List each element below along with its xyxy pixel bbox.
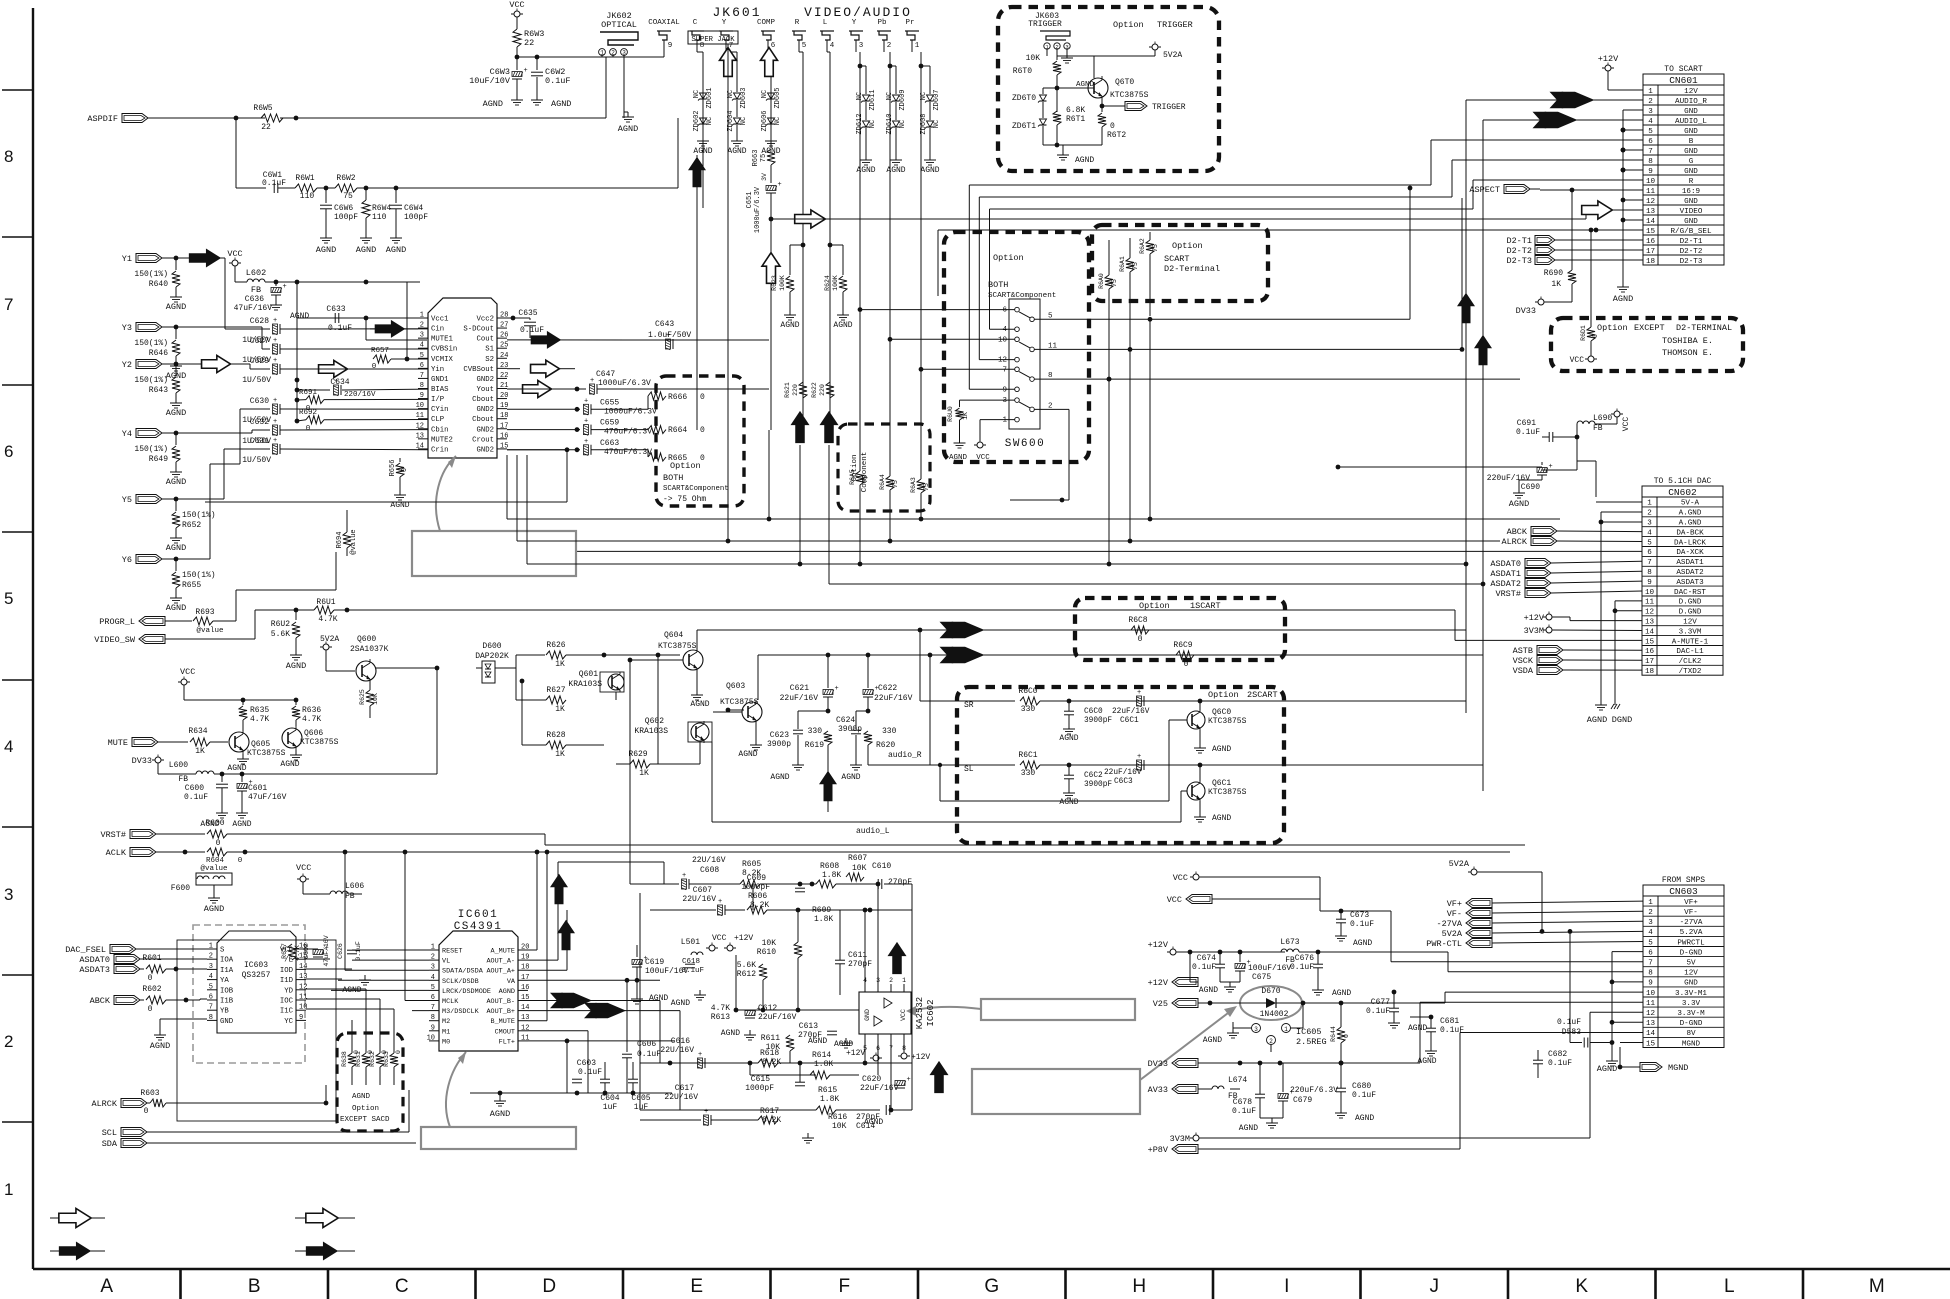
svg-text:12: 12 — [299, 983, 307, 991]
svg-text:C673: C673 — [1350, 911, 1369, 920]
svg-text:14: 14 — [416, 442, 424, 450]
IC602 top pin 3 — [877, 984, 879, 992]
svg-text:C603: C603 — [577, 1059, 596, 1068]
svg-text:K: K — [1575, 1276, 1588, 1297]
wire audio_R — [868, 764, 940, 766]
svg-text:GND: GND — [220, 1018, 234, 1026]
resistor R6W5 — [261, 114, 283, 122]
svg-text:1: 1 — [915, 42, 920, 50]
svg-text:1000uF/6.3V: 1000uF/6.3V — [604, 407, 657, 416]
svg-text:330: 330 — [882, 727, 897, 736]
svg-text:KTC3875S: KTC3875S — [658, 642, 697, 651]
svg-text:0: 0 — [1110, 122, 1115, 131]
resistor R629 1K — [630, 760, 650, 768]
svg-text:R619: R619 — [805, 741, 824, 750]
svg-text:1K: 1K — [195, 747, 205, 756]
svg-text:R627: R627 — [546, 686, 565, 695]
svg-text:/TXD2: /TXD2 — [1679, 668, 1702, 676]
svg-text:YB: YB — [220, 1008, 229, 1016]
svg-text:Y4: Y4 — [122, 429, 132, 439]
IC602 top pin 4 — [864, 984, 866, 992]
svg-text:DAC_FSEL: DAC_FSEL — [65, 945, 106, 955]
svg-text:10K: 10K — [1026, 54, 1041, 63]
svg-text:SDATA/DSDA: SDATA/DSDA — [442, 968, 484, 976]
capacitor C6W6 — [325, 188, 327, 203]
svg-text:KTC3875S: KTC3875S — [1110, 91, 1149, 100]
power VCC small — [979, 420, 981, 441]
transistor Q6T0 — [1088, 78, 1108, 98]
wire 16:9 — [1540, 189, 1643, 191]
svg-text:C626: C626 — [337, 943, 344, 959]
svg-text:4.7K: 4.7K — [294, 945, 301, 961]
svg-text:9: 9 — [299, 1014, 303, 1022]
svg-text:Q604: Q604 — [664, 631, 683, 640]
pin 21 Yout — [497, 387, 507, 389]
pin 10 I1C — [296, 1009, 306, 1011]
IC U601 video switch body — [428, 298, 497, 458]
svg-text:Option: Option — [352, 1105, 379, 1113]
capacitor C601 47uF/16V — [241, 774, 243, 782]
pin 19 GND2 — [497, 408, 507, 410]
svg-text:C611: C611 — [848, 951, 867, 960]
svg-text:+12V: +12V — [1148, 978, 1169, 988]
pin 3 MUTE1 — [418, 337, 428, 339]
wire SR/SL drops — [918, 628, 923, 633]
svg-text:0.1uF: 0.1uF — [355, 941, 362, 961]
capacitor C659 470uF/6.3V — [507, 429, 580, 431]
resistor R646 150(1%) — [175, 327, 177, 339]
svg-text:1K: 1K — [555, 705, 565, 714]
wire net C681 — [1410, 1016, 1431, 1018]
ground AGND — [1518, 488, 1520, 493]
svg-text:I: I — [1284, 1276, 1289, 1297]
resistor R6W3 — [513, 29, 521, 47]
svg-text:R624: R624 — [824, 275, 831, 291]
svg-text:0.1uF: 0.1uF — [1366, 1007, 1390, 1016]
svg-text:8: 8 — [4, 147, 13, 166]
svg-text:13: 13 — [299, 973, 307, 981]
resistor R6A1 75 — [1126, 258, 1134, 272]
svg-text:R6T1: R6T1 — [1066, 115, 1085, 124]
svg-text:VCC: VCC — [1622, 417, 1631, 432]
svg-text:YA: YA — [220, 977, 229, 985]
svg-text:D2-Terminal: D2-Terminal — [1164, 264, 1220, 274]
svg-text:+: + — [524, 67, 528, 75]
wire — [268, 408, 270, 410]
black arrow up on C line — [688, 157, 706, 188]
svg-text:4: 4 — [830, 42, 835, 50]
svg-text:0: 0 — [148, 974, 153, 983]
wire bus R to CN601 — [990, 208, 1474, 210]
svg-text:NC: NC — [693, 90, 701, 98]
svg-text:+: + — [1137, 689, 1141, 697]
wire loop under IC — [507, 449, 567, 451]
svg-text:R623: R623 — [771, 275, 778, 291]
svg-text:75: 75 — [862, 475, 869, 483]
wire D-GND row6 — [1612, 951, 1643, 953]
svg-text:Y5: Y5 — [122, 495, 132, 505]
svg-text:0: 0 — [1138, 635, 1143, 644]
svg-text:10: 10 — [416, 402, 424, 410]
ground AGND — [855, 760, 857, 765]
resistor R6C8 0 — [1131, 626, 1149, 634]
wire — [210, 741, 228, 743]
svg-text:R6A2: R6A2 — [1139, 238, 1146, 254]
svg-text:+: + — [283, 283, 287, 291]
svg-text:L: L — [823, 19, 828, 27]
svg-text:RESET: RESET — [442, 948, 462, 956]
svg-text:R6W4: R6W4 — [372, 204, 391, 213]
ground small — [1066, 53, 1068, 58]
resistor R664 0 — [648, 426, 666, 434]
svg-text:C623: C623 — [770, 731, 789, 740]
svg-text:Option: Option — [670, 461, 701, 471]
sheet border frame — [32, 8, 34, 1269]
svg-text:AGND: AGND — [727, 147, 746, 156]
svg-text:6: 6 — [876, 1045, 880, 1052]
svg-text:C632: C632 — [250, 418, 269, 427]
svg-text:L690: L690 — [1593, 414, 1612, 423]
pin 22 GND2 — [497, 377, 507, 379]
ground AGND — [175, 593, 177, 598]
svg-text:R6T2: R6T2 — [1107, 131, 1126, 140]
wire collector to D600 — [376, 667, 437, 669]
svg-text:D670: D670 — [1261, 987, 1280, 996]
svg-text:1: 1 — [431, 944, 435, 952]
svg-text:6: 6 — [420, 362, 424, 370]
svg-text:ZD602: ZD602 — [693, 110, 701, 131]
node — [520, 679, 525, 684]
svg-text:1.8K: 1.8K — [822, 871, 841, 880]
svg-text:AGND: AGND — [1239, 1124, 1258, 1133]
svg-text:ASDAT2: ASDAT2 — [1490, 579, 1521, 589]
svg-text:R640: R640 — [149, 280, 168, 289]
svg-text:0: 0 — [700, 426, 705, 435]
svg-text:DV33: DV33 — [1516, 306, 1536, 316]
svg-text:C6C3: C6C3 — [1114, 778, 1133, 786]
svg-text:Option: Option — [1113, 20, 1144, 30]
svg-text:VF+: VF+ — [1447, 899, 1462, 909]
svg-text:R626: R626 — [546, 641, 565, 650]
IC602 top pin 1 — [903, 984, 905, 992]
svg-text:R601: R601 — [142, 954, 161, 963]
svg-text:I/P: I/P — [431, 396, 444, 404]
svg-text:15: 15 — [500, 442, 508, 450]
svg-text:NC: NC — [774, 117, 782, 125]
svg-text:R663: R663 — [752, 150, 760, 167]
capacitor C680 0.1uF — [1336, 1087, 1346, 1089]
svg-text:CLP: CLP — [431, 416, 444, 424]
svg-text:R614: R614 — [812, 1051, 831, 1060]
svg-text:Cin: Cin — [431, 326, 444, 334]
svg-text:Y1: Y1 — [122, 254, 132, 264]
svg-text:0: 0 — [1592, 334, 1599, 338]
option box JK603 TRIGGER — [998, 7, 1219, 171]
svg-text:2: 2 — [889, 977, 893, 984]
wire VA — [528, 979, 660, 981]
svg-text:ZD606: ZD606 — [761, 110, 769, 131]
svg-text:0.1uF: 0.1uF — [262, 179, 286, 188]
IC602 bottom pin 7 — [890, 1034, 892, 1042]
opamp IC602 KA2532 body — [859, 992, 911, 1034]
resistor R6T1 6.8K — [1053, 111, 1061, 125]
svg-text:150(1%): 150(1%) — [134, 445, 168, 454]
wire — [516, 17, 518, 29]
svg-text:+: + — [584, 397, 588, 405]
svg-text:6.8K: 6.8K — [1066, 106, 1085, 115]
svg-text:C621: C621 — [790, 684, 809, 693]
pin 10 M0 — [429, 1040, 439, 1042]
wire filter verticals extra — [752, 884, 754, 910]
port tag MGND — [1618, 1065, 1623, 1070]
pin 15 /E — [296, 958, 306, 960]
power +12V — [1605, 65, 1611, 71]
ground AGND — [797, 760, 799, 765]
svg-text:R646: R646 — [149, 349, 168, 358]
inductor L600 FB — [196, 771, 214, 774]
ground AGND — [770, 125, 772, 136]
svg-text:GND2: GND2 — [476, 376, 494, 384]
svg-text:Pr: Pr — [905, 19, 914, 27]
svg-text:C: C — [693, 19, 698, 27]
zener ZD6T1 — [1040, 119, 1047, 125]
wire Cout to COMP column — [660, 339, 769, 341]
svg-text:100K: 100K — [779, 275, 786, 291]
svg-text:ZD612: ZD612 — [856, 113, 864, 134]
pin 1 S — [207, 948, 217, 950]
connector table CN601 TO SCART — [1643, 74, 1724, 265]
svg-text:1: 1 — [4, 1180, 13, 1199]
svg-text:YC: YC — [284, 1018, 293, 1026]
ground AGND — [399, 490, 401, 495]
svg-text:EXCEPT SACD: EXCEPT SACD — [340, 1116, 390, 1124]
svg-text:BIAS: BIAS — [431, 386, 449, 394]
svg-text:R604: R604 — [206, 857, 225, 865]
capacitor C675 100uF/16V — [1235, 964, 1245, 969]
svg-text:AOUT_A-: AOUT_A- — [486, 958, 515, 966]
wire left pins IC601 — [352, 949, 429, 951]
svg-text:Option: Option — [1208, 690, 1239, 700]
zener diode ZD608 — [929, 102, 931, 120]
svg-text:10uF/10V: 10uF/10V — [469, 76, 511, 86]
svg-text:Cbout: Cbout — [472, 416, 494, 424]
svg-text:C608: C608 — [700, 866, 719, 875]
svg-text:R618: R618 — [760, 1049, 779, 1058]
svg-text:0.1uF: 0.1uF — [1548, 1059, 1572, 1068]
svg-text:AGND: AGND — [1199, 986, 1218, 995]
wire 5V2A riser — [1569, 931, 1571, 1042]
svg-text:+12V: +12V — [1598, 54, 1619, 64]
svg-text:+P8V: +P8V — [1148, 1145, 1169, 1155]
connector table CN603 FROM SMPS — [1643, 885, 1724, 1048]
resistor R663 on COMP line — [770, 92, 772, 148]
svg-text:@value: @value — [196, 627, 223, 635]
wire 5V2A — [1057, 55, 1155, 57]
wire 3.3V row11 — [1419, 1002, 1421, 1063]
svg-text:27: 27 — [500, 322, 508, 330]
svg-text:ABCK: ABCK — [90, 996, 111, 1006]
svg-text:75: 75 — [1132, 262, 1139, 270]
svg-text:16: 16 — [500, 432, 508, 440]
svg-text:AGND: AGND — [1353, 939, 1372, 948]
IC602 top pin 2 — [890, 984, 892, 992]
svg-text:4: 4 — [209, 973, 213, 981]
svg-text:R664: R664 — [668, 426, 687, 435]
svg-text:FLT+: FLT+ — [499, 1038, 515, 1046]
ground AGND — [175, 361, 177, 366]
svg-text:R652: R652 — [182, 521, 201, 530]
svg-text:FB: FB — [345, 892, 355, 901]
ground AGND — [536, 95, 538, 100]
svg-text:2SCART: 2SCART — [1247, 690, 1278, 700]
svg-text:R620: R620 — [876, 741, 895, 750]
svg-text:24: 24 — [500, 352, 508, 360]
svg-text:AGND: AGND — [150, 1041, 170, 1051]
node — [575, 387, 580, 392]
node — [769, 217, 774, 222]
wire — [166, 999, 200, 1001]
wire to A-MUTE row — [1454, 610, 1456, 640]
svg-text:AGND: AGND — [280, 760, 299, 769]
svg-text:+: + — [704, 1108, 708, 1116]
connector table CN602 TO 5.1CH DAC — [1642, 486, 1723, 675]
svg-text:ZD6T1: ZD6T1 — [1012, 122, 1036, 131]
wire — [348, 893, 362, 895]
svg-text:E: E — [690, 1276, 703, 1297]
svg-text:4.7K: 4.7K — [318, 615, 337, 624]
zener diode ZD603 — [736, 91, 738, 93]
wire — [162, 432, 176, 434]
capacitor C621 22uF/16V — [827, 655, 829, 688]
svg-text:5: 5 — [431, 984, 435, 992]
svg-text:22U/16V: 22U/16V — [664, 1093, 698, 1102]
resistor R6D1 0 — [1589, 228, 1594, 233]
pin 14 Crin — [418, 448, 428, 450]
resistor R622 220 — [826, 382, 834, 398]
svg-text:ALRCK: ALRCK — [91, 1099, 117, 1109]
resistor R6A3 75 — [917, 479, 925, 493]
svg-text:R6C8: R6C8 — [1128, 616, 1147, 625]
svg-text:25: 25 — [500, 342, 508, 350]
svg-text:100K: 100K — [832, 275, 839, 291]
ground AGND — [702, 125, 704, 136]
svg-text:VCC: VCC — [509, 0, 524, 10]
resistor R652 150(1%) — [175, 499, 177, 511]
IC603 QS3257 body — [217, 931, 296, 1033]
wire COMP column bus — [768, 430, 770, 519]
svg-text:SCART: SCART — [1164, 254, 1190, 264]
wire rail — [265, 281, 420, 283]
node junction — [515, 55, 520, 60]
svg-text:VCC: VCC — [712, 934, 727, 943]
svg-text:11: 11 — [416, 412, 424, 420]
pin 13 MUTE2 — [418, 438, 428, 440]
ground AGND — [241, 808, 243, 813]
wire — [369, 681, 371, 690]
svg-text:1.8K: 1.8K — [814, 915, 833, 924]
wire AUDIO_R — [1466, 99, 1643, 101]
svg-text:470uF/6.3V: 470uF/6.3V — [604, 428, 652, 437]
capacitor C626 0.1uF rotated — [347, 949, 357, 951]
svg-text:AGND: AGND — [356, 245, 376, 255]
svg-text:VCC: VCC — [1570, 356, 1585, 365]
svg-text:1K: 1K — [555, 750, 565, 759]
pin 11 CLP — [418, 418, 428, 420]
legend white arrow right — [50, 1217, 105, 1219]
svg-text:11: 11 — [299, 994, 307, 1002]
svg-text:ZD611: ZD611 — [869, 89, 877, 110]
resistor R621 220 — [799, 382, 807, 398]
pin 16 AGND — [518, 989, 528, 991]
svg-text:R657: R657 — [371, 347, 389, 355]
white arrow right VIDEO — [1582, 201, 1613, 219]
svg-text:Q606: Q606 — [304, 729, 323, 738]
wires SW600 right pins to buses — [1034, 318, 1410, 320]
svg-text:18: 18 — [1645, 668, 1655, 676]
capacitor C673 0.1uF — [1336, 918, 1346, 920]
svg-text:100pF: 100pF — [334, 213, 358, 222]
svg-text:8: 8 — [209, 1014, 213, 1022]
svg-text:R694: R694 — [336, 532, 344, 549]
svg-text:R631: R631 — [355, 1051, 362, 1067]
pin 15 GND2 — [497, 448, 507, 450]
transistor Q606 KTC3875S — [282, 728, 302, 748]
svg-text:R6A5: R6A5 — [849, 469, 856, 485]
black double arrow right AOUT_B+ — [584, 1003, 609, 1018]
svg-text:NC: NC — [886, 92, 894, 100]
diode D670 1N4002 ellipse — [1240, 986, 1302, 1020]
white arrow up below COMP jack — [761, 48, 778, 77]
svg-text:220: 220 — [792, 384, 799, 396]
capacitor C630 1U/50V — [273, 404, 278, 414]
pin 27 S-DCout — [497, 327, 507, 329]
transistor Q603 KTC3875S — [742, 702, 762, 722]
ground AGND — [499, 1096, 501, 1101]
inductor L690 FB — [1577, 421, 1595, 424]
svg-text:Y: Y — [722, 19, 727, 27]
svg-text:R621: R621 — [784, 382, 791, 398]
ground AGND — [516, 95, 518, 100]
wire video bus to CN601 VIDEO — [771, 218, 1586, 220]
pin 13 I1D — [296, 979, 306, 981]
pin 9 YC — [296, 1019, 306, 1021]
svg-text:0: 0 — [372, 363, 377, 371]
svg-text:C651: C651 — [746, 192, 754, 209]
pin 1 RESET — [429, 949, 439, 951]
svg-text:L600: L600 — [169, 761, 188, 770]
wire down from ASPDIF node — [235, 118, 237, 188]
ground AGND — [1622, 282, 1624, 287]
svg-text:7: 7 — [431, 1004, 435, 1012]
wire — [162, 257, 176, 259]
svg-text:R636: R636 — [302, 706, 321, 715]
svg-text:1U/50V: 1U/50V — [242, 376, 271, 385]
svg-text:C628: C628 — [250, 317, 269, 326]
svg-text:9: 9 — [1002, 386, 1007, 394]
svg-text:SCLK/DSDB: SCLK/DSDB — [442, 978, 479, 986]
svg-text:22: 22 — [500, 372, 508, 380]
svg-text:6: 6 — [1002, 307, 1007, 315]
svg-text:C679: C679 — [1293, 1096, 1312, 1105]
svg-text:Q603: Q603 — [726, 682, 745, 691]
svg-text:Crin: Crin — [431, 446, 449, 454]
svg-text:5: 5 — [420, 352, 424, 360]
wire — [1093, 56, 1095, 78]
svg-text:C601: C601 — [248, 784, 267, 793]
svg-text:C680: C680 — [1352, 1082, 1371, 1091]
svg-text:5: 5 — [863, 1045, 867, 1052]
svg-text:7: 7 — [209, 1004, 213, 1012]
